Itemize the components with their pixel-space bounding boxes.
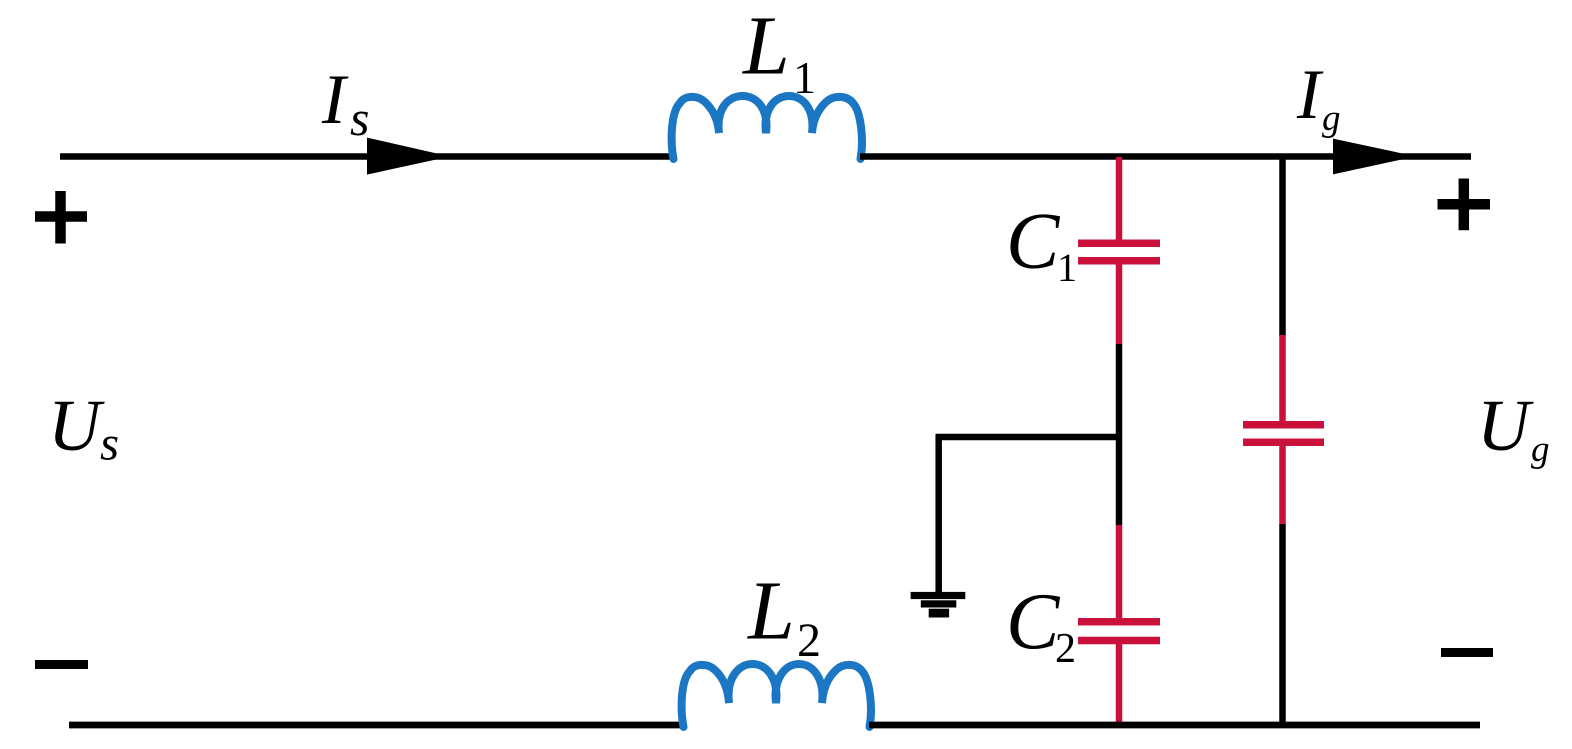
wire: red segment below C2	[1116, 640, 1123, 724]
capacitor C2	[1078, 622, 1160, 641]
svg-text:g: g	[1531, 429, 1550, 470]
minus sign right	[1441, 648, 1493, 657]
wire: right branch black top	[1279, 157, 1286, 336]
svg-text:U: U	[48, 385, 105, 466]
label C2	[1006, 579, 1076, 673]
label Is	[321, 61, 369, 146]
label L2	[747, 565, 821, 668]
wire: black middle segment between C1 and C2	[1116, 344, 1123, 525]
capacitor C1	[1078, 243, 1160, 261]
svg-text:s: s	[100, 416, 119, 471]
svg-text:C: C	[1006, 579, 1061, 667]
wire top-left segment	[60, 153, 673, 160]
wire: right branch black bottom	[1279, 524, 1286, 725]
svg-text:C: C	[1006, 198, 1061, 286]
capacitor C3 (output filter, unlabeled)	[1243, 425, 1324, 443]
label Ug	[1477, 385, 1550, 470]
wire: ground horizontal	[936, 434, 1123, 441]
wire: right branch red lower	[1279, 443, 1286, 524]
node: middle branch top (red segment above C1)	[1116, 157, 1123, 240]
label C1	[1006, 198, 1077, 290]
wire: right branch red upper	[1279, 335, 1286, 423]
svg-text:I: I	[1296, 56, 1324, 134]
plus sign left	[35, 191, 87, 244]
svg-text:1: 1	[793, 52, 816, 103]
wire bottom-left segment	[69, 722, 683, 729]
svg-text:s: s	[350, 90, 369, 146]
wire bottom-right segment	[869, 722, 1480, 729]
svg-text:1: 1	[1057, 245, 1077, 290]
wire: red segment above C2	[1116, 525, 1123, 620]
wire top-right segment	[860, 153, 1471, 160]
svg-text:g: g	[1322, 98, 1341, 139]
current arrow Ig	[1333, 139, 1416, 175]
label Ig	[1296, 56, 1341, 139]
label L1	[742, 0, 816, 103]
wire: ground vertical drop	[935, 434, 942, 592]
svg-text:2: 2	[1055, 626, 1076, 672]
inductor L1	[672, 96, 862, 159]
svg-text:L: L	[742, 0, 790, 93]
inductor L2	[682, 664, 871, 727]
label Us	[48, 385, 119, 471]
wire: red segment below C1	[1116, 264, 1123, 344]
svg-text:U: U	[1477, 385, 1534, 466]
svg-text:2: 2	[797, 614, 821, 667]
svg-text:I: I	[321, 61, 349, 139]
current arrow Is	[367, 138, 450, 175]
plus sign right	[1438, 179, 1491, 231]
minus sign left	[35, 660, 88, 669]
svg-text:L: L	[747, 565, 795, 658]
ground symbol	[911, 592, 966, 618]
